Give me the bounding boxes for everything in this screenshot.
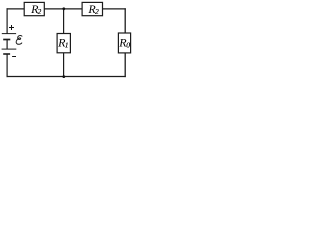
wire top middle <box>44 8 82 10</box>
plus sign <box>9 25 14 30</box>
node junction bottom <box>62 75 65 78</box>
resistor R2 box first <box>24 2 44 15</box>
svg-text:1: 1 <box>65 40 69 49</box>
battery cell1 short plate <box>3 39 10 41</box>
battery cell2 long plate <box>2 48 17 50</box>
wire middle upper <box>63 9 65 34</box>
wire top left <box>7 8 25 10</box>
wire battery middle <box>6 40 8 49</box>
battery cell1 long plate <box>2 33 16 35</box>
battery cell2 short plate <box>3 53 10 55</box>
svg-text:2: 2 <box>38 7 42 16</box>
wire top right <box>103 8 126 10</box>
minus sign <box>12 56 16 58</box>
svg-text:0: 0 <box>126 41 130 50</box>
emf script E symbol <box>16 36 22 45</box>
resistor R1 box <box>57 34 70 53</box>
wire left lower <box>6 54 8 77</box>
resistor R2 box second <box>82 2 102 15</box>
resistor R0 box <box>118 33 130 53</box>
svg-text:2: 2 <box>95 7 99 16</box>
wire right upper <box>124 8 126 33</box>
node junction top <box>62 7 65 10</box>
wire middle lower <box>63 53 65 77</box>
wire left upper <box>6 8 8 33</box>
wire right lower <box>124 53 126 77</box>
wire bottom <box>7 76 126 78</box>
